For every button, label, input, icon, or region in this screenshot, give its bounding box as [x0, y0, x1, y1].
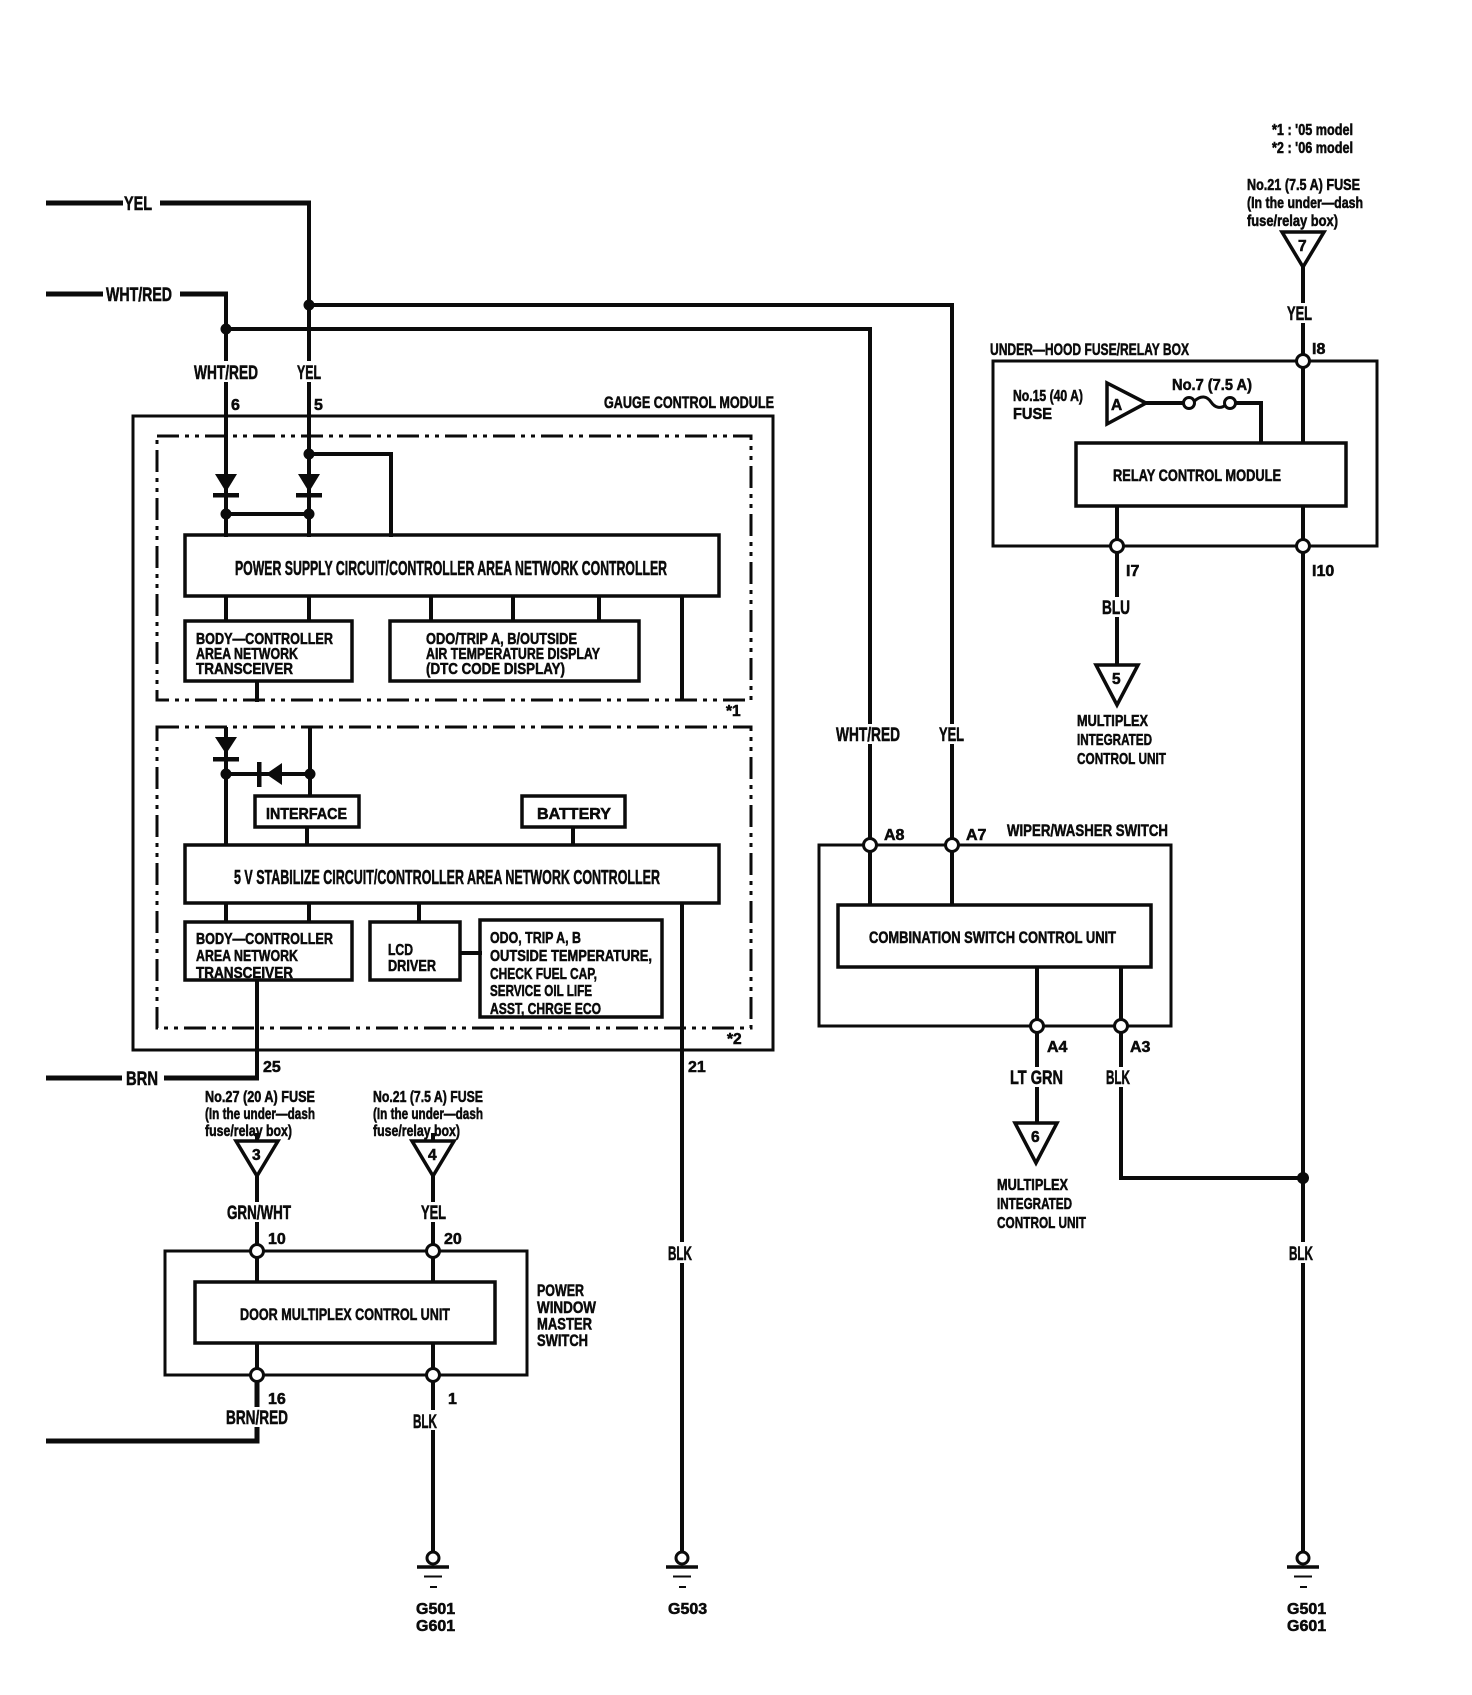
- body-controller area network transceiver box 1: [185, 621, 352, 681]
- pin connector A7: [946, 839, 959, 852]
- odo/trip display list box 2: [480, 920, 662, 1018]
- wire stub U1 to body transceiver 1 (right): [307, 596, 311, 621]
- combination switch control unit box: [838, 905, 1151, 967]
- svg-text:6: 6: [231, 397, 240, 414]
- fuse No.15 label: [1013, 388, 1083, 423]
- svg-text:RELAY CONTROL MODULE: RELAY CONTROL MODULE: [1113, 466, 1281, 485]
- svg-text:G501: G501: [416, 1601, 455, 1618]
- door multiplex control unit box: [195, 1282, 495, 1343]
- label BRN/RED: [224, 1407, 290, 1429]
- wire diode output link: [226, 512, 309, 516]
- fuse No.27 label: [205, 1089, 315, 1140]
- label LT GRN: [1008, 1067, 1065, 1089]
- wire I10 BLK main ground line: [1301, 552, 1305, 1552]
- svg-text:fuse/relay box): fuse/relay box): [205, 1123, 292, 1140]
- svg-text:*1: *1: [726, 703, 741, 720]
- wire U2 to pin 21 and ground G503: [680, 903, 684, 1552]
- pin connector I8: [1297, 355, 1310, 368]
- svg-text:BLU: BLU: [1102, 598, 1130, 619]
- wire BRN/RED exit (bottom left): [46, 1381, 257, 1441]
- wire stub U2 to body transceiver 2 (right): [307, 903, 311, 922]
- svg-text:fuse/relay box): fuse/relay box): [373, 1123, 460, 1140]
- svg-text:No.27 (20 A) FUSE: No.27 (20 A) FUSE: [205, 1089, 315, 1106]
- connector 6 symbol: [1015, 1123, 1057, 1163]
- fuse No.21 label (right): [1247, 177, 1363, 230]
- svg-text:16: 16: [268, 1391, 286, 1408]
- svg-text:A3: A3: [1130, 1039, 1151, 1056]
- svg-text:G501: G501: [1287, 1601, 1326, 1618]
- fuse A symbol (No.15): [1107, 383, 1146, 424]
- wire fuse 7 to under-hood box pin I8: [1301, 267, 1305, 361]
- svg-text:5: 5: [1112, 671, 1121, 688]
- wire WHT/RED branch to wiper/washer switch A8: [226, 329, 870, 845]
- svg-text:*2 : '06 model: *2 : '06 model: [1272, 140, 1353, 157]
- power window master switch box: [165, 1251, 527, 1375]
- svg-text:BLK: BLK: [668, 1244, 692, 1265]
- svg-text:CONTROL UNIT: CONTROL UNIT: [997, 1215, 1086, 1232]
- fuse 4 symbol: [412, 1133, 454, 1176]
- svg-text:COMBINATION SWITCH CONTROL UNI: COMBINATION SWITCH CONTROL UNIT: [869, 928, 1116, 947]
- label YEL (A7 wire): [936, 724, 968, 746]
- wire fuse 3 to power window switch pin 10: [255, 1176, 259, 1251]
- svg-text:SERVICE OIL LIFE: SERVICE OIL LIFE: [490, 983, 592, 1000]
- dash-dot box *2 ('06 model): [157, 727, 751, 1028]
- wire body transceiver 2 to pin 25 / BRN: [255, 980, 259, 1080]
- fuse No.7 element: [1184, 397, 1236, 409]
- svg-text:7: 7: [1298, 238, 1307, 255]
- svg-text:I7: I7: [1126, 563, 1139, 580]
- label WHT/RED at pin 6: [192, 361, 260, 384]
- power supply circuit box U1: [185, 535, 719, 596]
- label GRN/WHT: [225, 1202, 293, 1224]
- svg-text:OUTSIDE TEMPERATURE,: OUTSIDE TEMPERATURE,: [490, 948, 652, 965]
- wire stub U1 to display 1 (c): [597, 596, 601, 621]
- fuse No.21 label (left): [373, 1089, 483, 1140]
- node junction A3 BLK joins main BLK: [1297, 1172, 1309, 1184]
- label BLK (main ground wire): [1286, 1242, 1318, 1265]
- svg-text:BLK: BLK: [1289, 1244, 1313, 1265]
- svg-text:BLK: BLK: [1106, 1068, 1130, 1089]
- svg-text:21: 21: [688, 1059, 706, 1076]
- node junction YEL bypass: [304, 449, 315, 460]
- pin connector 16: [251, 1369, 264, 1382]
- svg-text:INTEGRATED: INTEGRATED: [1077, 732, 1152, 749]
- svg-text:YEL: YEL: [1287, 304, 1312, 325]
- node junction D4 right: [305, 769, 316, 780]
- svg-text:G503: G503: [668, 1601, 707, 1618]
- node junction YEL branch: [304, 300, 315, 311]
- label YEL at pin 5: [296, 361, 323, 384]
- wire combination unit to pin A4: [1035, 967, 1039, 1026]
- svg-text:(In the under—dash: (In the under—dash: [205, 1106, 315, 1123]
- svg-text:CONTROL UNIT: CONTROL UNIT: [1077, 751, 1166, 768]
- svg-text:TRANSCEIVER: TRANSCEIVER: [196, 661, 293, 678]
- fuse 3 symbol: [236, 1133, 278, 1176]
- wire fuse No.7 to relay control module: [1235, 403, 1261, 443]
- svg-text:5: 5: [314, 397, 323, 414]
- relay control module box: [1076, 443, 1346, 506]
- svg-text:A7: A7: [966, 827, 987, 844]
- wire YEL entry (top left): [46, 194, 311, 215]
- wire I7 BLU to multiplex unit: [1115, 552, 1119, 665]
- diode D4 (*2 circuit, horizontal, points left): [257, 762, 282, 787]
- svg-text:BLK: BLK: [413, 1412, 437, 1433]
- svg-text:MULTIPLEX: MULTIPLEX: [997, 1177, 1068, 1194]
- svg-text:LCD: LCD: [388, 942, 413, 959]
- label BLU: [1098, 597, 1136, 619]
- svg-text:10: 10: [268, 1231, 286, 1248]
- battery box: [522, 796, 625, 827]
- svg-text:No.21 (7.5 A) FUSE: No.21 (7.5 A) FUSE: [1247, 177, 1360, 194]
- wire A4 LT GRN to multiplex unit: [1035, 1032, 1039, 1123]
- gauge control module outer box: [133, 416, 773, 1050]
- wire pin6 feed in *2 circuit: [224, 727, 228, 845]
- svg-text:BODY—CONTROLLER: BODY—CONTROLLER: [196, 931, 333, 948]
- svg-text:SWITCH: SWITCH: [537, 1331, 588, 1350]
- svg-text:20: 20: [444, 1231, 462, 1248]
- wire stub U1 to display 1 (a): [429, 596, 433, 621]
- ground G501 G601 (right): [1287, 1552, 1326, 1635]
- LCD driver box: [370, 922, 460, 980]
- wiper/washer switch box: [819, 845, 1171, 1026]
- note *1 *2 model years: [1272, 122, 1353, 157]
- wire pin5 feed in *2 circuit: [308, 727, 312, 796]
- wire diode row (*2 circuit): [226, 772, 310, 776]
- wire door multiplex to pin 1: [431, 1343, 435, 1369]
- svg-text:YEL: YEL: [297, 363, 321, 384]
- label YEL (I8 wire): [1284, 303, 1319, 325]
- wire WHT/RED vertical to gauge module pin 6: [224, 292, 228, 537]
- svg-text:AREA NETWORK: AREA NETWORK: [196, 948, 298, 965]
- svg-text:UNDER—HOOD FUSE/RELAY BOX: UNDER—HOOD FUSE/RELAY BOX: [990, 340, 1189, 359]
- pin connector A4: [1031, 1020, 1044, 1033]
- wire relay module to pin I7: [1115, 506, 1119, 546]
- svg-text:BATTERY: BATTERY: [537, 806, 611, 823]
- svg-text:WHT/RED: WHT/RED: [836, 725, 900, 746]
- svg-text:BRN/RED: BRN/RED: [226, 1408, 288, 1429]
- wire stub U1 to display 1 (b): [511, 596, 515, 621]
- wire door multiplex to pin 16: [255, 1343, 259, 1369]
- fuse 7 symbol: [1282, 232, 1324, 267]
- svg-text:FUSE: FUSE: [1013, 406, 1052, 423]
- pin connector 10: [251, 1245, 264, 1258]
- connector 5 symbol: [1096, 665, 1138, 705]
- pin connector 20: [427, 1245, 440, 1258]
- svg-text:*1 : '05 model: *1 : '05 model: [1272, 122, 1353, 139]
- svg-text:5 V STABILIZE CIRCUIT/CONTROLL: 5 V STABILIZE CIRCUIT/CONTROLLER AREA NE…: [234, 867, 660, 889]
- node junction WHT/RED branch: [221, 324, 232, 335]
- svg-text:WIPER/WASHER SWITCH: WIPER/WASHER SWITCH: [1007, 821, 1168, 840]
- svg-text:POWER SUPPLY CIRCUIT/CONTROLLE: POWER SUPPLY CIRCUIT/CONTROLLER AREA NET…: [235, 558, 667, 580]
- svg-text:YEL: YEL: [124, 194, 152, 215]
- wire YEL branch to wiper/washer switch A7: [309, 305, 952, 845]
- svg-text:I8: I8: [1312, 341, 1325, 358]
- body-controller area network transceiver box 2: [185, 922, 352, 982]
- interface box: [255, 796, 359, 827]
- wire stub U2 to body transceiver 2 (left): [224, 903, 228, 922]
- label multiplex integrated control unit (lower): [997, 1177, 1086, 1232]
- svg-text:YEL: YEL: [939, 725, 964, 746]
- wire U1 output to dash border (pin 21 column): [680, 596, 684, 701]
- wire BRN entry: [46, 1069, 259, 1090]
- node junction D4 left: [221, 769, 232, 780]
- label BLK (A3 wire): [1102, 1067, 1140, 1089]
- label WHT/RED (A8 wire): [834, 724, 904, 746]
- wire pin10 to door multiplex unit: [255, 1258, 259, 1282]
- wire I8 to relay control module: [1301, 367, 1305, 443]
- svg-text:G601: G601: [1287, 1618, 1326, 1635]
- wire WHT/RED entry: [46, 285, 228, 306]
- svg-text:No.15 (40 A): No.15 (40 A): [1013, 388, 1083, 405]
- svg-text:A: A: [1111, 397, 1122, 414]
- svg-text:(In the under—dash: (In the under—dash: [373, 1106, 483, 1123]
- wire A8 to combination switch unit: [868, 851, 872, 905]
- svg-text:GAUGE CONTROL MODULE: GAUGE CONTROL MODULE: [604, 393, 774, 412]
- pin connector I10: [1297, 540, 1310, 553]
- svg-text:*2: *2: [727, 1031, 742, 1048]
- wire stub U2 to LCD driver: [417, 903, 421, 922]
- label BLK (pin 1 wire): [411, 1410, 439, 1433]
- svg-text:No.21 (7.5 A) FUSE: No.21 (7.5 A) FUSE: [373, 1089, 483, 1106]
- pin connector A8: [864, 839, 877, 852]
- svg-text:25: 25: [263, 1059, 281, 1076]
- label multiplex integrated control unit (upper): [1077, 713, 1166, 768]
- wire battery to 5V circuit: [571, 827, 575, 845]
- svg-text:INTERFACE: INTERFACE: [266, 806, 347, 823]
- wire pin20 to door multiplex unit: [431, 1258, 435, 1282]
- wire interface to 5V circuit: [305, 827, 309, 845]
- label power window master switch: [537, 1281, 597, 1350]
- svg-text:DRIVER: DRIVER: [388, 958, 436, 975]
- node diode outputs tie: [221, 509, 315, 520]
- wire combination unit to pin A3: [1119, 967, 1123, 1026]
- label YEL (pin 20 wire): [419, 1202, 448, 1224]
- svg-text:A4: A4: [1047, 1039, 1068, 1056]
- dash-dot box *1 ('05 model): [157, 436, 751, 700]
- svg-text:fuse/relay box): fuse/relay box): [1247, 213, 1338, 230]
- wire A3 BLK to main ground line: [1121, 1032, 1303, 1178]
- svg-text:MULTIPLEX: MULTIPLEX: [1077, 713, 1148, 730]
- wire fuse A to fuse No.7: [1146, 401, 1185, 405]
- ground G503: [666, 1552, 707, 1618]
- 5V stabilize circuit box U2: [185, 845, 719, 903]
- svg-text:YEL: YEL: [421, 1203, 446, 1224]
- svg-text:ASST, CHRGE ECO: ASST, CHRGE ECO: [490, 1001, 601, 1018]
- svg-text:GRN/WHT: GRN/WHT: [227, 1203, 291, 1224]
- svg-text:WHT/RED: WHT/RED: [194, 363, 258, 384]
- svg-text:(In the under—dash: (In the under—dash: [1247, 195, 1363, 212]
- svg-text:A8: A8: [884, 827, 905, 844]
- pin connector A3: [1115, 1020, 1128, 1033]
- svg-text:BRN: BRN: [126, 1069, 158, 1090]
- svg-text:INTEGRATED: INTEGRATED: [997, 1196, 1072, 1213]
- svg-text:TRANSCEIVER: TRANSCEIVER: [196, 965, 293, 982]
- wire stub U1 to body transceiver 1 (left): [224, 596, 228, 621]
- wire A7 to combination switch unit: [950, 851, 954, 905]
- svg-text:(DTC CODE DISPLAY): (DTC CODE DISPLAY): [426, 661, 565, 678]
- svg-text:CHECK FUEL CAP,: CHECK FUEL CAP,: [490, 966, 597, 983]
- ground G501 G601 (left): [416, 1552, 455, 1635]
- svg-text:DOOR MULTIPLEX CONTROL UNIT: DOOR MULTIPLEX CONTROL UNIT: [240, 1305, 450, 1324]
- svg-text:1: 1: [448, 1391, 457, 1408]
- wire relay module to pin I10: [1301, 506, 1305, 546]
- pin connector I7: [1111, 540, 1124, 553]
- svg-text:3: 3: [252, 1147, 261, 1164]
- wire YEL bypass to power supply circuit: [309, 454, 391, 537]
- svg-text:LT GRN: LT GRN: [1010, 1068, 1063, 1089]
- wire YEL vertical to gauge module pin 5: [307, 201, 311, 537]
- svg-text:6: 6: [1031, 1129, 1040, 1146]
- svg-text:No.7 (7.5 A): No.7 (7.5 A): [1172, 377, 1252, 394]
- svg-text:4: 4: [428, 1147, 437, 1164]
- svg-text:G601: G601: [416, 1618, 455, 1635]
- diode D1 (WHT/RED feed, *1 circuit): [213, 474, 239, 498]
- odo/trip display box 1: [390, 621, 639, 681]
- svg-text:I10: I10: [1312, 563, 1334, 580]
- pin connector 1: [427, 1369, 440, 1382]
- diode D3 (*2 circuit, vertical): [213, 737, 239, 762]
- wire pin 1 to ground G501: [431, 1381, 435, 1552]
- wire LCD driver to display list: [460, 951, 482, 955]
- svg-text:WHT/RED: WHT/RED: [106, 285, 172, 306]
- svg-text:ODO, TRIP A, B: ODO, TRIP A, B: [490, 930, 581, 947]
- diode D2 (YEL feed, *1 circuit): [296, 474, 322, 498]
- label BLK on pin 21 wire: [666, 1242, 694, 1265]
- wire fuse 4 to power window switch pin 20: [431, 1176, 435, 1251]
- under-hood fuse/relay box: [993, 361, 1377, 546]
- wire stub body transceiver 1 to dash border: [255, 681, 259, 702]
